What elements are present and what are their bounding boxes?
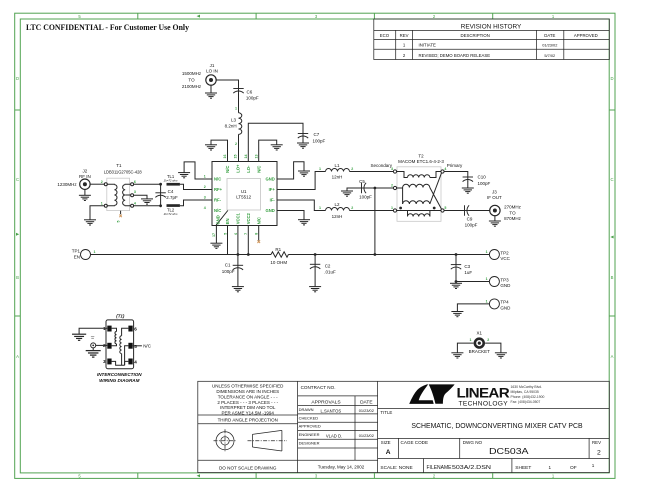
svg-text:13: 13 <box>254 155 258 159</box>
svg-text:A: A <box>386 449 391 456</box>
svg-text:J1: J1 <box>210 63 215 68</box>
svg-text:B: B <box>16 275 19 280</box>
svg-text:2: 2 <box>487 338 489 342</box>
svg-text:A: A <box>16 354 19 359</box>
svg-text:Zo=72 ohm: Zo=72 ohm <box>163 212 178 216</box>
svg-text:IF+: IF+ <box>269 187 276 192</box>
svg-text:A: A <box>611 354 614 359</box>
svg-text:DRAWN: DRAWN <box>299 407 314 412</box>
svg-text:LINEAR: LINEAR <box>457 386 510 401</box>
svg-text:DATE: DATE <box>544 33 555 38</box>
svg-text:CAGE CODE: CAGE CODE <box>401 440 429 445</box>
svg-text:Phone: (408)432-1900: Phone: (408)432-1900 <box>511 395 545 399</box>
svg-text:1uF: 1uF <box>464 270 472 275</box>
svg-text:2100MHz: 2100MHz <box>182 84 202 89</box>
svg-text:10 OHM: 10 OHM <box>270 260 287 265</box>
svg-text:EN: EN <box>74 254 80 259</box>
svg-text:Fax: (408)434-0507: Fax: (408)434-0507 <box>511 400 541 404</box>
svg-text:1: 1 <box>549 465 552 470</box>
svg-text:N/C: N/C <box>256 166 261 173</box>
svg-text:6: 6 <box>134 180 136 184</box>
svg-text:TL1: TL1 <box>167 174 175 179</box>
svg-text:DESCRIPTION: DESCRIPTION <box>461 33 490 38</box>
svg-text:1230MHz: 1230MHz <box>57 182 77 187</box>
svg-text:Milpitas, CA 95035: Milpitas, CA 95035 <box>511 390 539 394</box>
svg-text:DATE: DATE <box>360 400 372 406</box>
svg-text:15: 15 <box>234 155 238 159</box>
svg-text:7: 7 <box>244 233 248 235</box>
svg-text:01/23/02: 01/23/02 <box>542 43 557 48</box>
svg-text:100pF: 100pF <box>478 181 491 186</box>
svg-text:TITLE: TITLE <box>380 410 392 415</box>
svg-text:.01uF: .01uF <box>324 270 336 275</box>
svg-text:DO NOT SCALE DRAWING: DO NOT SCALE DRAWING <box>219 466 277 471</box>
svg-text:OF: OF <box>570 465 577 471</box>
svg-text:N/C: N/C <box>214 177 221 182</box>
svg-text:2: 2 <box>597 449 601 456</box>
svg-text:5/7/02: 5/7/02 <box>544 53 555 58</box>
svg-text:1: 1 <box>486 300 488 304</box>
svg-text:Tuesday, May 14, 2002: Tuesday, May 14, 2002 <box>318 465 365 470</box>
svg-text:TL2: TL2 <box>167 207 175 212</box>
svg-text:CONTRACT NO.: CONTRACT NO. <box>301 385 336 390</box>
svg-text:D: D <box>16 76 19 81</box>
svg-text:ECO: ECO <box>380 33 390 38</box>
svg-text:2 PLACES - - - 3 PLACES - -: 2 PLACES - - - 3 PLACES - - - <box>217 400 278 405</box>
svg-text:IF OUT: IF OUT <box>487 195 502 200</box>
svg-text:APPROVALS: APPROVALS <box>311 399 341 405</box>
svg-text:2: 2 <box>351 206 353 210</box>
svg-text:12nH: 12nH <box>332 175 343 180</box>
svg-text:J3: J3 <box>492 190 497 195</box>
svg-text:C4: C4 <box>168 189 174 194</box>
svg-text:C: C <box>16 177 19 182</box>
svg-text:LO+: LO+ <box>236 164 241 173</box>
svg-text:BRACKET: BRACKET <box>469 349 491 354</box>
svg-text:503A/2.DSN: 503A/2.DSN <box>452 465 491 471</box>
svg-text:LDB311G2705C-428: LDB311G2705C-428 <box>104 169 143 174</box>
svg-text:VCC1: VCC1 <box>236 212 241 224</box>
svg-text:DESIGNER: DESIGNER <box>299 441 320 446</box>
svg-text:1: 1 <box>470 338 472 342</box>
svg-text:VCC2: VCC2 <box>246 212 251 224</box>
svg-text:2: 2 <box>391 184 393 188</box>
svg-text:VCC: VCC <box>500 256 510 261</box>
svg-text:N/C: N/C <box>256 217 261 224</box>
svg-text:DC503A: DC503A <box>489 446 529 456</box>
svg-text:L.SANTOS: L.SANTOS <box>321 408 342 413</box>
svg-text:EN: EN <box>225 218 230 224</box>
svg-text:J2: J2 <box>83 168 88 173</box>
svg-text:APPROVED: APPROVED <box>299 424 321 429</box>
svg-text:14: 14 <box>244 155 248 159</box>
svg-text:T2: T2 <box>418 154 424 159</box>
svg-text:1: 1 <box>319 167 321 171</box>
svg-text:1500MHz: 1500MHz <box>182 71 202 76</box>
svg-text:1: 1 <box>486 250 488 254</box>
svg-text:1: 1 <box>486 277 488 281</box>
svg-text:DIMENSIONS ARE IN INCHES: DIMENSIONS ARE IN INCHES <box>216 389 279 394</box>
svg-text:1: 1 <box>94 250 96 254</box>
svg-text:Primary: Primary <box>447 163 463 168</box>
svg-text:C7: C7 <box>314 132 320 137</box>
svg-text:DWG NO: DWG NO <box>463 440 483 445</box>
svg-text:UNLESS OTHERWISE SPECIFIED: UNLESS OTHERWISE SPECIFIED <box>212 384 284 389</box>
svg-text:1: 1 <box>592 463 595 468</box>
svg-text:100pF: 100pF <box>222 269 235 274</box>
svg-text:N/C: N/C <box>225 166 230 173</box>
svg-text:5: 5 <box>116 221 120 223</box>
svg-text:8.2nH: 8.2nH <box>225 124 237 129</box>
svg-text:U1: U1 <box>241 189 247 194</box>
svg-text:LO-: LO- <box>246 165 251 173</box>
svg-text:GND: GND <box>500 305 511 310</box>
svg-text:C9: C9 <box>467 216 473 221</box>
svg-text:SIZE: SIZE <box>381 440 391 445</box>
svg-text:TP4: TP4 <box>500 300 509 305</box>
svg-text:5: 5 <box>444 206 446 210</box>
svg-text:(T1): (T1) <box>116 313 125 318</box>
svg-text:C6: C6 <box>247 90 253 95</box>
svg-text:LO IN: LO IN <box>206 69 218 74</box>
svg-text:01/23/02: 01/23/02 <box>359 433 374 438</box>
svg-text:1630 McCarthy Blvd.: 1630 McCarthy Blvd. <box>511 385 543 389</box>
svg-text:1: 1 <box>235 107 237 111</box>
svg-text:8: 8 <box>255 233 259 235</box>
svg-text:IF-: IF- <box>270 198 276 203</box>
svg-text:1: 1 <box>319 206 321 210</box>
svg-text:B: B <box>611 275 614 280</box>
svg-text:2: 2 <box>351 167 353 171</box>
svg-text:SHEET: SHEET <box>515 465 531 471</box>
svg-text:3: 3 <box>134 190 136 194</box>
svg-text:C10: C10 <box>478 175 487 180</box>
svg-text:870MHz: 870MHz <box>504 216 522 221</box>
svg-text:4: 4 <box>134 360 137 365</box>
svg-text:TP3: TP3 <box>500 277 509 282</box>
svg-text:100pF: 100pF <box>313 138 326 143</box>
svg-text:2: 2 <box>101 180 103 184</box>
svg-text:THIRD ANGLE PROJECTION: THIRD ANGLE PROJECTION <box>218 417 278 422</box>
svg-text:D: D <box>610 76 613 81</box>
svg-text:100pF: 100pF <box>465 223 478 228</box>
svg-text:CHECKED: CHECKED <box>299 415 319 420</box>
svg-text:3: 3 <box>391 167 393 171</box>
svg-text:TP2: TP2 <box>500 250 509 255</box>
svg-text:C2: C2 <box>325 264 331 269</box>
svg-text:17: 17 <box>212 233 216 237</box>
svg-text:N/C: N/C <box>214 208 221 213</box>
svg-text:100pF: 100pF <box>246 95 259 100</box>
svg-text:INTERCONNECTION: INTERCONNECTION <box>97 372 142 377</box>
svg-text:R1: R1 <box>275 247 281 252</box>
svg-text:3: 3 <box>103 359 106 364</box>
svg-text:12nH: 12nH <box>332 214 343 219</box>
svg-text:TP1: TP1 <box>72 249 81 254</box>
svg-text:4: 4 <box>204 206 206 210</box>
svg-text:TECHNOLOGY: TECHNOLOGY <box>459 400 509 407</box>
svg-text:Zo=72 ohm: Zo=72 ohm <box>163 178 178 182</box>
svg-text:REVISION HISTORY: REVISION HISTORY <box>461 23 522 30</box>
svg-text:GND: GND <box>265 208 274 213</box>
svg-text:RF IN: RF IN <box>79 174 91 179</box>
svg-text:2.7pF: 2.7pF <box>166 195 178 200</box>
svg-text:2: 2 <box>235 142 237 146</box>
svg-text:T1: T1 <box>116 163 122 168</box>
svg-text:100pF: 100pF <box>359 194 372 199</box>
svg-text:2: 2 <box>204 185 206 189</box>
svg-text:APPROVED: APPROVED <box>574 33 598 38</box>
svg-text:GND: GND <box>265 177 274 182</box>
svg-text:4: 4 <box>444 167 446 171</box>
svg-text:1: 1 <box>391 206 393 210</box>
svg-text:X1: X1 <box>477 331 483 336</box>
svg-text:Secondary: Secondary <box>370 163 392 168</box>
svg-text:LTC CONFIDENTIAL - For Custome: LTC CONFIDENTIAL - For Customer Use Only <box>26 22 190 32</box>
svg-text:6: 6 <box>134 327 137 332</box>
svg-text:REV: REV <box>592 440 601 445</box>
svg-text:ENGINEER: ENGINEER <box>299 432 320 437</box>
svg-text:4: 4 <box>134 201 136 205</box>
svg-text:5: 5 <box>223 233 227 235</box>
svg-text:PER ASME Y14.5M -1994: PER ASME Y14.5M -1994 <box>221 410 274 415</box>
svg-text:GND: GND <box>500 283 511 288</box>
svg-text:INITIATE: INITIATE <box>419 43 436 48</box>
svg-text:3: 3 <box>204 196 206 200</box>
svg-text:SCALE: NONE: SCALE: NONE <box>380 465 412 471</box>
svg-text:MACOM ETC1.6-4-2-3: MACOM ETC1.6-4-2-3 <box>398 159 444 164</box>
svg-text:C5: C5 <box>359 179 365 184</box>
svg-text:N/C: N/C <box>143 344 152 349</box>
svg-text:VLAD D.: VLAD D. <box>326 434 342 439</box>
svg-text:TO: TO <box>509 210 516 215</box>
svg-text:C3: C3 <box>464 264 470 269</box>
svg-text:01/23/02: 01/23/02 <box>359 408 374 413</box>
svg-text:1: 1 <box>204 175 206 179</box>
svg-text:RF-: RF- <box>214 198 222 203</box>
svg-text:L3: L3 <box>231 118 237 123</box>
svg-text:C: C <box>610 177 613 182</box>
svg-text:C1: C1 <box>225 263 231 268</box>
svg-text:GND: GND <box>215 215 220 224</box>
svg-text:270MHz: 270MHz <box>504 205 522 210</box>
svg-text:16: 16 <box>223 155 227 159</box>
svg-text:TOLERANCE ON ANGLE - - -: TOLERANCE ON ANGLE - - - <box>218 394 278 399</box>
svg-text:L2: L2 <box>334 202 340 207</box>
svg-text:REVISED; DEMO BOARD RELEASE: REVISED; DEMO BOARD RELEASE <box>419 53 491 58</box>
svg-text:RF+: RF+ <box>214 187 223 192</box>
svg-text:FILENAME: FILENAME <box>427 465 453 471</box>
svg-text:1: 1 <box>101 201 103 205</box>
svg-text:SCHEMATIC, DOWNCONVERTING MIX: SCHEMATIC, DOWNCONVERTING MIXER CATV PCB <box>411 423 583 430</box>
svg-text:REV: REV <box>400 33 409 38</box>
svg-text:TO: TO <box>188 78 195 83</box>
svg-text:L1: L1 <box>334 163 340 168</box>
svg-text:LT5512: LT5512 <box>236 195 251 200</box>
svg-text:WIRING DIAGRAM: WIRING DIAGRAM <box>99 378 139 383</box>
svg-text:6: 6 <box>234 233 238 235</box>
